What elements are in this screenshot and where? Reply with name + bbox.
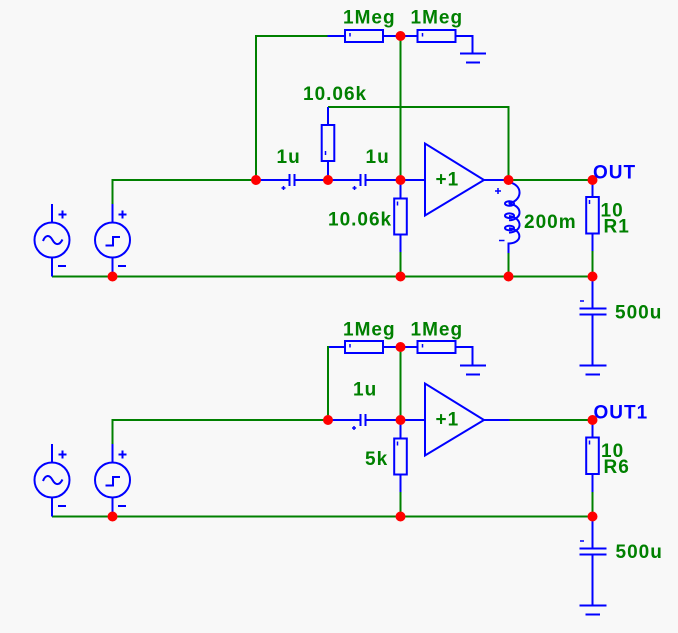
wire <box>400 492 402 517</box>
ground <box>580 366 607 375</box>
labels circuit 2 <box>343 320 663 564</box>
svg-text:1Meg: 1Meg <box>343 320 396 341</box>
svg-text:1Meg: 1Meg <box>411 320 464 341</box>
wire <box>592 492 594 517</box>
capacitor C4 1u <box>328 414 401 430</box>
svg-text:OUT1: OUT1 <box>594 403 649 424</box>
capacitor C5 500u <box>580 517 607 606</box>
svg-text:R6: R6 <box>604 457 630 478</box>
wire <box>508 253 510 277</box>
resistor R5 10.06k (to ground) <box>394 180 407 252</box>
node <box>323 175 333 185</box>
svg-text:OUT: OUT <box>593 163 636 184</box>
wire <box>52 276 593 278</box>
svg-text:1Meg: 1Meg <box>411 8 464 29</box>
capacitor C2 1u <box>328 174 401 190</box>
svg-text:200m: 200m <box>524 212 577 233</box>
svg-text:1u: 1u <box>353 380 377 401</box>
wire <box>113 420 329 444</box>
node <box>323 415 333 425</box>
node <box>588 272 598 282</box>
node <box>396 272 406 282</box>
labels circuit 1 <box>277 8 663 324</box>
svg-text:1Meg: 1Meg <box>343 8 396 29</box>
resistor R9 5k <box>394 420 407 492</box>
node <box>396 175 406 185</box>
node <box>108 512 118 522</box>
capacitor C3 500u <box>580 277 607 366</box>
wire <box>510 419 593 421</box>
junction dots circuit 1 <box>108 31 598 282</box>
node <box>504 175 514 185</box>
wire <box>592 251 594 277</box>
svg-text:500u: 500u <box>616 542 663 563</box>
svg-text:+1: +1 <box>436 170 460 191</box>
wire <box>113 180 257 204</box>
wire <box>400 36 402 180</box>
resistor R7 1Meg <box>329 341 401 353</box>
voltage source V3 (sine) <box>35 444 70 517</box>
node <box>396 512 406 522</box>
ground <box>460 54 486 63</box>
svg-text:500u: 500u <box>615 303 662 324</box>
node <box>396 342 406 352</box>
svg-text:R1: R1 <box>604 217 630 238</box>
wire <box>400 347 402 420</box>
node <box>108 272 118 282</box>
node OUT <box>588 175 598 185</box>
node <box>251 175 261 185</box>
voltage source V2 (pulse) <box>95 204 130 277</box>
resistor R6 10 <box>586 420 599 492</box>
voltage source V4 (pulse) <box>95 444 130 517</box>
capacitor C1 1u <box>256 174 328 190</box>
resistor R1 10 <box>586 180 599 251</box>
svg-text:1u: 1u <box>277 147 301 168</box>
node <box>396 31 406 41</box>
ground <box>460 366 486 375</box>
wire <box>52 516 593 518</box>
svg-text:10.06k: 10.06k <box>303 84 367 105</box>
wire <box>256 36 328 180</box>
svg-text:+1: +1 <box>436 410 460 431</box>
voltage source V1 (sine) <box>35 204 70 277</box>
op-amp U1 <box>401 144 509 216</box>
resistor R4 10.06k (feedback) <box>322 107 335 180</box>
wire <box>509 179 593 181</box>
ground <box>580 606 607 615</box>
svg-text:10.06k: 10.06k <box>328 210 392 231</box>
svg-text:5k: 5k <box>365 449 388 470</box>
wire <box>328 347 330 420</box>
wire <box>400 252 402 277</box>
resistor R8 1Meg <box>401 341 473 366</box>
op-amp U2 <box>401 384 510 456</box>
node <box>396 415 406 425</box>
node OUT1 <box>588 415 598 425</box>
svg-text:1u: 1u <box>366 147 390 168</box>
inductor L1 200m <box>495 180 520 253</box>
junction dots circuit 2 <box>108 342 598 522</box>
node <box>588 512 598 522</box>
wire <box>328 107 509 180</box>
resistor R3 1Meg <box>401 30 473 54</box>
node <box>504 272 514 282</box>
resistor R2 1Meg <box>328 30 401 42</box>
